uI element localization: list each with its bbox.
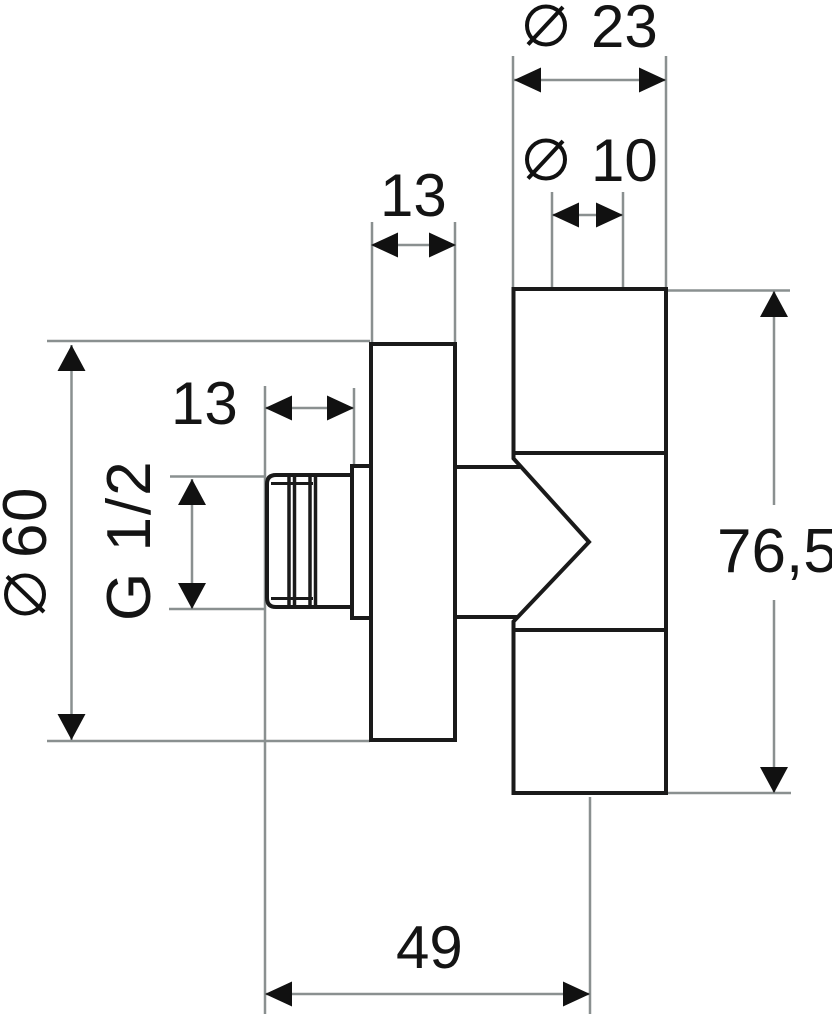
- thread section verticals: [287, 476, 291, 606]
- Ø60 arrows: [58, 345, 86, 371]
- label Ø23: [527, 0, 658, 60]
- G 1/2 arrows: [178, 479, 206, 505]
- thread root lines: [271, 482, 313, 485]
- long extension line at thread tip: [264, 386, 267, 1014]
- extension lines Ø10: [551, 192, 554, 288]
- dimension line top 13: [371, 244, 456, 247]
- 49 arrows: [265, 982, 292, 1007]
- dimension line Ø60: [70, 345, 73, 740]
- extension lines G 1/2: [170, 475, 264, 478]
- extension line right of Ø23 above body: [665, 56, 668, 288]
- extension line left of Ø23: [512, 56, 515, 288]
- thread G 1/2 outer: [267, 475, 352, 607]
- 76,5 arrows: [760, 291, 788, 317]
- top 13 arrows: [371, 233, 398, 258]
- dimension line Ø23: [514, 79, 666, 82]
- svg-text:13: 13: [380, 162, 447, 229]
- dimension line left 13: [265, 407, 354, 410]
- extension lines top 13: [371, 222, 374, 343]
- svg-text:13: 13: [171, 370, 238, 437]
- wall plate: [371, 344, 455, 740]
- svg-text:10: 10: [591, 127, 658, 194]
- valve body top section: [514, 289, 667, 453]
- svg-text:23: 23: [591, 0, 658, 60]
- flange behind wall plate: [352, 466, 371, 618]
- dimension line Ø10: [552, 214, 623, 217]
- label Ø10: [527, 127, 658, 194]
- svg-text:60: 60: [0, 486, 60, 558]
- svg-text:G 1/2: G 1/2: [95, 459, 164, 621]
- dimension line 76,5: [773, 291, 776, 505]
- svg-text:76,5: 76,5: [717, 517, 832, 586]
- extension lines 76,5: [668, 289, 790, 292]
- valve body bottom section: [514, 630, 667, 793]
- valve body middle section with chevron notch: [514, 453, 667, 630]
- left 13 arrows: [265, 396, 292, 421]
- extension line 49 right (body centerline): [589, 797, 592, 1014]
- extension lines Ø60: [47, 340, 370, 343]
- dimension line G 1/2: [191, 479, 194, 609]
- neck between wall plate and body: [455, 465, 520, 469]
- Ø23 arrows: [514, 68, 541, 93]
- label Ø60 (rotated): [0, 486, 60, 613]
- dimension line 49: [265, 993, 590, 996]
- svg-text:49: 49: [396, 914, 463, 981]
- extension line right of left 13: [353, 388, 356, 467]
- Ø10 arrows: [552, 203, 579, 228]
